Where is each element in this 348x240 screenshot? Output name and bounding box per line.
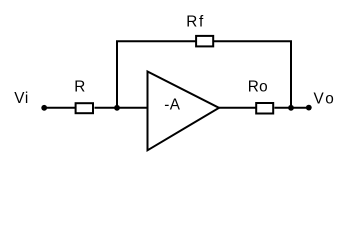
input terminal dot xyxy=(41,105,47,111)
wire feedback left vertical xyxy=(116,41,118,108)
svg-text:-A: -A xyxy=(164,97,181,114)
output terminal dot xyxy=(306,105,312,111)
node junction dot at feedback tap xyxy=(114,105,120,111)
node junction dot at output feedback tap xyxy=(288,105,294,111)
wire op-amp output to Ro xyxy=(219,107,257,109)
wire feedback top left segment xyxy=(116,40,196,42)
svg-text:R: R xyxy=(74,79,85,96)
wire Ro to output terminal xyxy=(274,107,308,109)
resistor R xyxy=(76,103,93,113)
svg-text:Vi: Vi xyxy=(14,90,29,107)
wire R to op-amp input xyxy=(95,107,149,109)
resistor Rf xyxy=(196,36,213,47)
op-amp A triangle xyxy=(148,72,220,151)
svg-text:Ro: Ro xyxy=(248,79,268,96)
svg-text:Vo: Vo xyxy=(314,91,337,108)
resistor Ro xyxy=(256,103,273,114)
svg-text:Rf: Rf xyxy=(186,14,205,31)
wire feedback top right segment xyxy=(213,40,292,42)
wire input to R xyxy=(45,107,77,109)
wire feedback right vertical xyxy=(290,41,292,108)
